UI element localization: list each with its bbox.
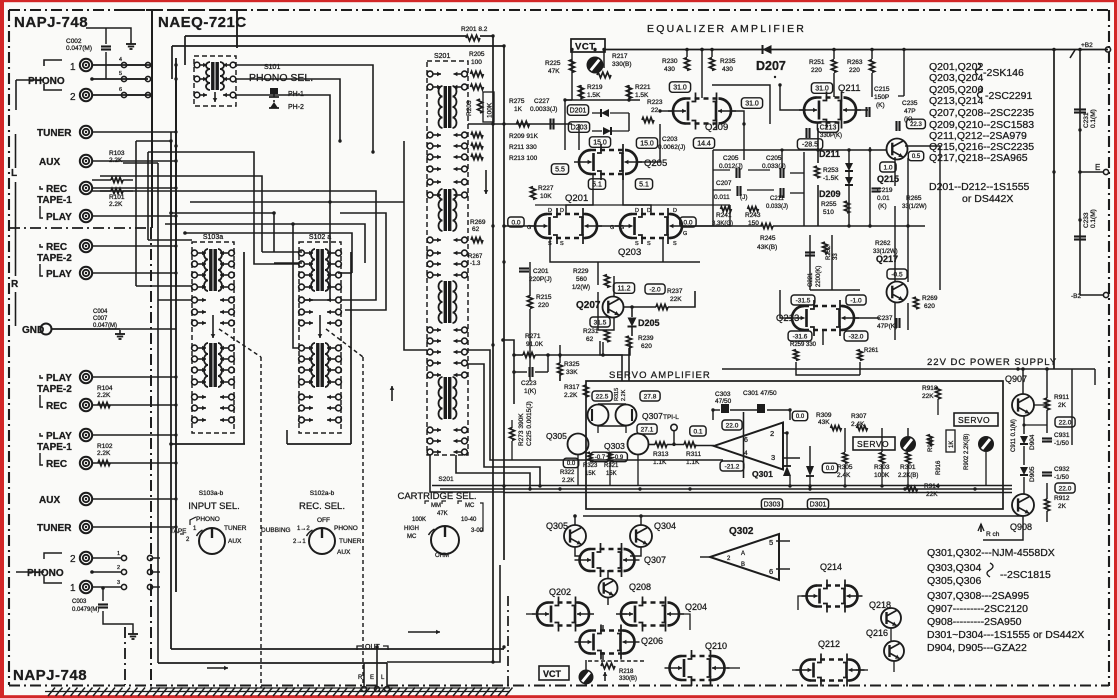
svg-text:Q307: Q307 [642, 411, 663, 421]
svg-text:AUX: AUX [39, 495, 60, 506]
svg-text:D201: D201 [570, 108, 587, 115]
svg-text:43K: 43K [818, 419, 830, 426]
svg-text:22.5: 22.5 [596, 393, 609, 400]
svg-text:C233: C233 [1083, 212, 1090, 228]
svg-text:-2.0: -2.0 [649, 286, 661, 293]
svg-text:220: 220 [538, 302, 549, 309]
svg-text:2.2K: 2.2K [97, 392, 111, 399]
svg-text:R235: R235 [720, 58, 736, 65]
svg-text:REC: REC [46, 184, 67, 195]
svg-text:330(B): 330(B) [619, 676, 637, 682]
svg-text:510: 510 [823, 209, 834, 216]
svg-text:Q307,Q308---2SA995: Q307,Q308---2SA995 [927, 590, 1029, 602]
svg-text:TAPE-1: TAPE-1 [37, 195, 72, 206]
svg-text:R219: R219 [587, 84, 603, 91]
svg-text:S: S [560, 241, 564, 247]
svg-text:D205: D205 [638, 318, 660, 328]
svg-text:620: 620 [641, 343, 652, 350]
svg-text:Q203: Q203 [618, 247, 641, 258]
svg-text:Q303,Q304: Q303,Q304 [927, 562, 981, 574]
svg-text:C003: C003 [72, 599, 87, 605]
svg-text:47P(K): 47P(K) [877, 323, 897, 330]
svg-text:Q303: Q303 [604, 441, 625, 451]
svg-text:MM: MM [431, 503, 441, 509]
svg-text:-1/50: -1/50 [1054, 474, 1069, 481]
svg-text:PLAY: PLAY [46, 431, 72, 442]
svg-text:22K: 22K [922, 393, 934, 400]
svg-text:2: 2 [117, 565, 120, 571]
svg-text:6: 6 [769, 567, 773, 576]
svg-text:C225 0.0015(J): C225 0.0015(J) [526, 401, 533, 446]
svg-text:14.4: 14.4 [697, 141, 711, 148]
svg-text:REC: REC [46, 401, 67, 412]
svg-text:C911 0.1(M): C911 0.1(M) [1011, 419, 1017, 452]
svg-text:Q307: Q307 [644, 555, 666, 565]
svg-text:C004: C004 [93, 309, 108, 315]
svg-text:R230: R230 [662, 58, 678, 65]
svg-text:-1.3: -1.3 [470, 261, 481, 267]
svg-text:R102: R102 [97, 443, 113, 450]
svg-text:R213 100: R213 100 [509, 155, 538, 162]
svg-text:D201--D212--1S1555: D201--D212--1S1555 [929, 181, 1030, 193]
svg-text:Q213,Q214: Q213,Q214 [929, 95, 983, 107]
svg-text:1.5K: 1.5K [635, 92, 649, 99]
svg-text:C002: C002 [66, 38, 82, 45]
svg-text:PLAY: PLAY [46, 212, 72, 223]
svg-text:R307: R307 [851, 413, 867, 420]
svg-text:R912: R912 [1054, 495, 1070, 502]
svg-text:R245: R245 [760, 235, 776, 242]
svg-text:22V DC POWER SUPPLY: 22V DC POWER SUPPLY [927, 357, 1057, 368]
svg-text:D207: D207 [756, 59, 786, 73]
svg-text:31.0: 31.0 [745, 101, 759, 108]
svg-text:100: 100 [471, 59, 482, 66]
svg-text:D904, D905---GZA22: D904, D905---GZA22 [927, 642, 1027, 654]
svg-text:C303: C303 [715, 391, 731, 398]
svg-text:1/2(W): 1/2(W) [572, 285, 590, 291]
svg-text:2: 2 [770, 429, 774, 438]
svg-text:R217: R217 [612, 53, 628, 60]
svg-text:R ch: R ch [986, 531, 1000, 538]
svg-text:-32.0: -32.0 [849, 333, 864, 340]
svg-text:C231: C231 [1083, 112, 1090, 128]
svg-text:E: E [370, 675, 374, 681]
svg-text:47K: 47K [548, 68, 560, 75]
svg-text:R103: R103 [109, 150, 125, 157]
svg-text:15.0: 15.0 [593, 140, 607, 147]
svg-text:2.2K: 2.2K [562, 478, 574, 484]
svg-text:22K: 22K [926, 491, 938, 498]
svg-text:2: 2 [70, 554, 76, 565]
svg-text:0.01: 0.01 [877, 195, 890, 202]
svg-text:AUX: AUX [228, 538, 242, 545]
svg-text:PHONO: PHONO [28, 76, 65, 87]
svg-text:-B2: -B2 [1071, 293, 1082, 300]
svg-text:OHM: OHM [435, 553, 449, 559]
svg-text:R218: R218 [619, 669, 634, 675]
svg-text:TAPE-2: TAPE-2 [37, 384, 72, 395]
svg-text:-2SC2291: -2SC2291 [985, 90, 1032, 102]
svg-text:-28.5: -28.5 [802, 142, 818, 149]
svg-text:-31.6: -31.6 [793, 333, 808, 340]
svg-text:220P(J): 220P(J) [529, 276, 552, 283]
svg-text:AUX: AUX [39, 157, 60, 168]
svg-text:REC: REC [46, 242, 67, 253]
svg-text:(K): (K) [876, 102, 885, 109]
svg-text:1.1K: 1.1K [686, 459, 700, 466]
svg-text:AUX: AUX [337, 549, 351, 556]
svg-text:TAPE-2: TAPE-2 [37, 253, 72, 264]
svg-text:22.3: 22.3 [910, 122, 922, 128]
svg-text:2→1: 2→1 [293, 539, 306, 545]
svg-text:PLAY: PLAY [46, 269, 72, 280]
svg-text:R262: R262 [875, 240, 891, 247]
svg-text:R255: R255 [821, 201, 837, 208]
svg-text:SERVO: SERVO [958, 415, 990, 425]
svg-text:R237: R237 [667, 288, 683, 295]
svg-text:Q305: Q305 [546, 431, 567, 441]
svg-text:0.047(M): 0.047(M) [66, 45, 92, 52]
svg-text:R209 91K: R209 91K [509, 133, 539, 140]
svg-text:TUNER: TUNER [224, 525, 247, 532]
svg-text:2: 2 [70, 92, 76, 103]
svg-text:430: 430 [722, 66, 733, 73]
svg-text:-1.5K: -1.5K [823, 175, 839, 182]
svg-text:R225: R225 [545, 60, 561, 67]
svg-text:Q907---------2SC2120: Q907---------2SC2120 [927, 603, 1028, 615]
svg-text:R239: R239 [638, 335, 654, 342]
svg-text:G: G [620, 225, 624, 231]
svg-text:R261: R261 [864, 348, 879, 354]
svg-text:S201: S201 [434, 53, 450, 60]
svg-text:31.0: 31.0 [673, 85, 687, 92]
svg-text:R269: R269 [922, 295, 938, 302]
svg-text:R322: R322 [560, 470, 575, 476]
svg-text:62: 62 [472, 226, 480, 233]
svg-text:15K: 15K [585, 471, 596, 477]
svg-text:11.2: 11.2 [617, 286, 630, 293]
svg-text:Q305,Q306: Q305,Q306 [927, 575, 981, 587]
svg-text:PLAY: PLAY [46, 373, 72, 384]
svg-text:R275: R275 [509, 98, 525, 105]
svg-text:B: B [741, 562, 745, 568]
svg-text:5.5: 5.5 [555, 167, 565, 174]
svg-text:27.8: 27.8 [644, 393, 657, 400]
svg-text:6: 6 [744, 437, 748, 444]
svg-text:1(K): 1(K) [524, 388, 536, 395]
svg-text:SERVO: SERVO [857, 439, 889, 449]
svg-text:R251: R251 [809, 59, 825, 66]
svg-text:15.0: 15.0 [640, 141, 654, 148]
svg-text:C213: C213 [820, 125, 837, 132]
svg-text:31.5: 31.5 [594, 319, 607, 326]
svg-text:Q214: Q214 [820, 562, 842, 572]
svg-text:1→2: 1→2 [297, 526, 310, 532]
svg-text:NAEQ-721C: NAEQ-721C [158, 14, 247, 31]
svg-text:S103a: S103a [203, 234, 223, 241]
svg-text:62: 62 [586, 336, 594, 343]
svg-text:R325: R325 [564, 361, 580, 368]
svg-text:-0.7: -0.7 [595, 455, 606, 461]
svg-text:TPI-L: TPI-L [663, 414, 679, 421]
svg-text:R211 330: R211 330 [509, 144, 537, 151]
svg-text:R215: R215 [536, 294, 552, 301]
svg-text:5: 5 [119, 71, 122, 77]
svg-text:OFF: OFF [317, 517, 330, 524]
svg-text:C203: C203 [662, 136, 678, 143]
svg-text:-31.5: -31.5 [796, 297, 811, 304]
svg-text:R205: R205 [469, 51, 485, 58]
svg-text:620: 620 [924, 303, 935, 310]
svg-text:-2SK146: -2SK146 [983, 67, 1024, 79]
svg-text:PHONO: PHONO [334, 525, 358, 532]
svg-text:0.0: 0.0 [826, 466, 835, 472]
svg-text:6: 6 [119, 87, 122, 93]
svg-text:or DS442X: or DS442X [962, 193, 1013, 205]
svg-text:C235: C235 [902, 100, 918, 107]
svg-text:Q302: Q302 [729, 526, 754, 537]
svg-text:Q212: Q212 [818, 639, 840, 649]
svg-text:Q217,Q218--2SA965: Q217,Q218--2SA965 [929, 152, 1028, 164]
svg-text:TUNER: TUNER [37, 523, 72, 534]
svg-text:R259: R259 [790, 342, 805, 348]
svg-text:NAPJ-748: NAPJ-748 [13, 667, 87, 684]
svg-text:4: 4 [744, 450, 748, 457]
svg-text:R311: R311 [686, 451, 701, 458]
svg-text:91.0K: 91.0K [526, 341, 544, 348]
svg-text:Q209: Q209 [705, 122, 728, 133]
svg-text:0.0: 0.0 [567, 461, 576, 467]
svg-text:D904: D904 [1029, 434, 1036, 450]
svg-text:R309: R309 [816, 412, 832, 419]
svg-text:330: 330 [806, 342, 817, 348]
svg-text:C227: C227 [534, 98, 550, 105]
svg-text:1.0: 1.0 [883, 164, 892, 171]
svg-text:R227: R227 [538, 185, 554, 192]
svg-text:S: S [647, 241, 651, 247]
svg-text:EQUALIZER AMPLIFIER: EQUALIZER AMPLIFIER [647, 23, 806, 35]
svg-text:0.047(M): 0.047(M) [93, 323, 117, 329]
svg-text:0.011: 0.011 [714, 194, 730, 201]
svg-text:1: 1 [117, 551, 120, 557]
svg-text:-0.5: -0.5 [891, 271, 903, 278]
svg-text:Q203,Q204: Q203,Q204 [929, 72, 983, 84]
svg-text:C931: C931 [1054, 432, 1070, 439]
svg-text:-0.9: -0.9 [613, 455, 624, 461]
svg-text:Q204: Q204 [685, 602, 707, 612]
svg-text:Q210: Q210 [705, 641, 727, 651]
svg-text:Q206: Q206 [641, 636, 663, 646]
svg-text:E: E [1095, 163, 1100, 172]
svg-text:0.033(J): 0.033(J) [766, 204, 788, 210]
svg-text:2.2K: 2.2K [97, 450, 111, 457]
svg-text:L: L [11, 168, 17, 179]
svg-text:22: 22 [651, 107, 659, 114]
svg-text:0.5: 0.5 [912, 154, 921, 160]
svg-text:TAPE: TAPE [170, 528, 187, 535]
svg-text:Q207: Q207 [576, 300, 601, 311]
svg-text:HIGH: HIGH [404, 526, 419, 532]
svg-text:PH-2: PH-2 [288, 104, 304, 111]
svg-text:Q305: Q305 [546, 521, 568, 531]
svg-text:R321: R321 [604, 463, 619, 469]
svg-text:D: D [635, 208, 639, 214]
svg-text:0.0033(J): 0.0033(J) [530, 106, 557, 113]
svg-text:Q301,Q302---NJM-4558DX: Q301,Q302---NJM-4558DX [927, 547, 1055, 559]
svg-text:5.1: 5.1 [639, 182, 649, 189]
svg-text:D301: D301 [810, 502, 827, 509]
svg-text:220: 220 [811, 67, 822, 74]
svg-text:C301 47/50: C301 47/50 [743, 390, 777, 397]
svg-text:Q207,Q208--2SC2235: Q207,Q208--2SC2235 [929, 107, 1034, 119]
svg-text:R104: R104 [97, 385, 113, 392]
svg-text:43K(B): 43K(B) [757, 244, 777, 251]
svg-text:R911: R911 [1054, 394, 1069, 401]
svg-text:R101: R101 [109, 194, 125, 201]
svg-text:1.5K: 1.5K [587, 92, 601, 99]
svg-text:3: 3 [771, 453, 775, 462]
svg-text:PHONO SEL.: PHONO SEL. [249, 72, 313, 84]
svg-text:Q301: Q301 [752, 469, 773, 479]
svg-text:D: D [560, 208, 564, 214]
svg-text:A: A [741, 551, 745, 557]
svg-text:R263: R263 [847, 59, 863, 66]
svg-text:33K: 33K [566, 369, 578, 376]
svg-text:R313: R313 [653, 451, 669, 458]
svg-text:REC. SEL.: REC. SEL. [299, 501, 345, 512]
svg-text:R: R [358, 675, 363, 681]
svg-text:R269: R269 [470, 219, 486, 226]
svg-text:1: 1 [70, 583, 76, 594]
svg-text:+B2: +B2 [1081, 42, 1093, 49]
svg-text:C223: C223 [521, 380, 537, 387]
svg-text:-21.2: -21.2 [725, 463, 740, 470]
svg-text:Q304: Q304 [654, 521, 676, 531]
svg-text:Q216: Q216 [866, 628, 888, 638]
svg-text:INPUT SEL.: INPUT SEL. [188, 501, 240, 512]
svg-text:100K: 100K [412, 517, 426, 523]
svg-text:D301~D304---1S1555 or DS442X: D301~D304---1S1555 or DS442X [927, 629, 1084, 641]
svg-text:2200(K): 2200(K) [816, 266, 822, 287]
svg-text:Q202: Q202 [549, 587, 571, 597]
svg-text:VCT: VCT [543, 669, 562, 679]
svg-text:C205: C205 [766, 155, 782, 162]
svg-text:22.0: 22.0 [1059, 485, 1072, 492]
svg-text:22.0: 22.0 [726, 422, 739, 429]
svg-text:R201 8.2: R201 8.2 [461, 26, 488, 33]
svg-text:10-40: 10-40 [461, 517, 477, 523]
svg-text:2.2K: 2.2K [621, 389, 627, 401]
svg-text:C205: C205 [723, 155, 739, 162]
svg-text:C207: C207 [716, 180, 732, 187]
svg-text:0.0479(M): 0.0479(M) [72, 607, 99, 613]
svg-text:220: 220 [849, 67, 860, 74]
svg-text:PHONO: PHONO [196, 516, 220, 523]
svg-text:R221: R221 [635, 84, 651, 91]
svg-text:150P: 150P [874, 94, 889, 101]
svg-text:R323: R323 [583, 463, 598, 469]
svg-text:Q208: Q208 [629, 582, 651, 592]
svg-text:2K: 2K [1058, 503, 1067, 510]
svg-text:R: R [11, 279, 19, 290]
svg-text:1K: 1K [949, 441, 955, 448]
svg-text:-1.0: -1.0 [850, 297, 862, 304]
svg-text:PHONO: PHONO [27, 568, 64, 579]
svg-text:2.2K: 2.2K [564, 392, 578, 399]
svg-text:C211: C211 [770, 196, 785, 202]
svg-text:3: 3 [117, 580, 120, 586]
svg-text:330P(K): 330P(K) [820, 133, 842, 139]
svg-text:C201: C201 [533, 268, 549, 275]
svg-text:15K: 15K [606, 471, 617, 477]
svg-text:--2SC1815: --2SC1815 [1000, 569, 1051, 581]
svg-text:R253: R253 [823, 167, 839, 174]
svg-text:Q907: Q907 [1005, 374, 1027, 384]
svg-text:33(1/2W): 33(1/2W) [902, 204, 927, 210]
svg-text:MC: MC [407, 534, 417, 540]
svg-text:R229: R229 [573, 268, 589, 275]
svg-text:0.1: 0.1 [693, 428, 702, 435]
svg-text:R271: R271 [525, 333, 541, 340]
svg-text:NAPJ-748: NAPJ-748 [14, 14, 88, 31]
svg-text:R317: R317 [564, 384, 580, 391]
svg-text:22.0: 22.0 [1059, 419, 1072, 426]
svg-text:Q205: Q205 [644, 158, 667, 169]
svg-text:5: 5 [769, 538, 773, 547]
svg-text:S: S [673, 241, 677, 247]
svg-text:22K: 22K [670, 296, 682, 303]
svg-text:G: G [683, 231, 687, 237]
svg-text:0.0062(J): 0.0062(J) [658, 144, 685, 151]
svg-text:1K: 1K [514, 106, 523, 113]
svg-text:TUNER: TUNER [37, 128, 72, 139]
svg-text:33: 33 [833, 253, 839, 260]
svg-text:Q211: Q211 [838, 83, 861, 94]
svg-text:REC: REC [46, 459, 67, 470]
svg-text:560: 560 [576, 276, 587, 283]
svg-text:10K: 10K [540, 193, 552, 200]
svg-text:C932: C932 [1054, 466, 1070, 473]
svg-text:D209: D209 [819, 189, 841, 199]
svg-text:Q908: Q908 [1010, 522, 1032, 532]
svg-text:Q215: Q215 [877, 174, 899, 184]
svg-text:D303: D303 [764, 502, 781, 509]
svg-text:R267: R267 [468, 254, 483, 260]
svg-text:0.1(M): 0.1(M) [1090, 209, 1097, 228]
svg-text:27.1: 27.1 [641, 426, 654, 433]
svg-text:C007: C007 [93, 316, 108, 322]
svg-text:DUBBING: DUBBING [261, 527, 291, 534]
svg-text:TAPE-1: TAPE-1 [37, 442, 72, 453]
svg-text:C215: C215 [874, 86, 890, 93]
svg-text:47K: 47K [437, 511, 448, 517]
svg-text:47/50: 47/50 [715, 398, 732, 405]
svg-text:VCT: VCT [575, 42, 596, 53]
svg-text:D: D [548, 208, 552, 214]
svg-text:1: 1 [70, 62, 76, 73]
svg-text:R223: R223 [647, 99, 663, 106]
svg-text:S103a-b: S103a-b [199, 490, 224, 497]
svg-text:R273 390K: R273 390K [518, 413, 525, 446]
svg-text:R315: R315 [614, 388, 620, 401]
svg-text:S: S [635, 241, 639, 247]
svg-text:(K): (K) [878, 203, 887, 210]
svg-text:R916: R916 [936, 460, 942, 475]
svg-text:SERVO AMPLIFIER: SERVO AMPLIFIER [609, 370, 711, 381]
svg-text:MC: MC [465, 503, 475, 509]
svg-text:D905: D905 [1029, 466, 1036, 482]
svg-text:430: 430 [664, 66, 675, 73]
